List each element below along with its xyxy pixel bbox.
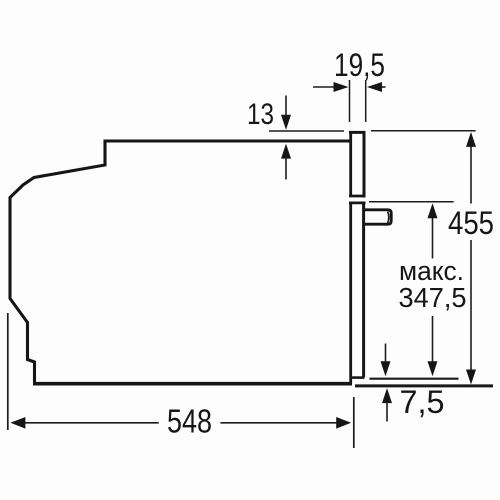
svg-text:19,5: 19,5 <box>334 47 385 83</box>
svg-text:13: 13 <box>247 98 274 131</box>
svg-text:7,5: 7,5 <box>400 384 445 420</box>
svg-text:455: 455 <box>448 205 494 241</box>
svg-text:347,5: 347,5 <box>399 282 467 313</box>
svg-text:548: 548 <box>167 403 212 440</box>
